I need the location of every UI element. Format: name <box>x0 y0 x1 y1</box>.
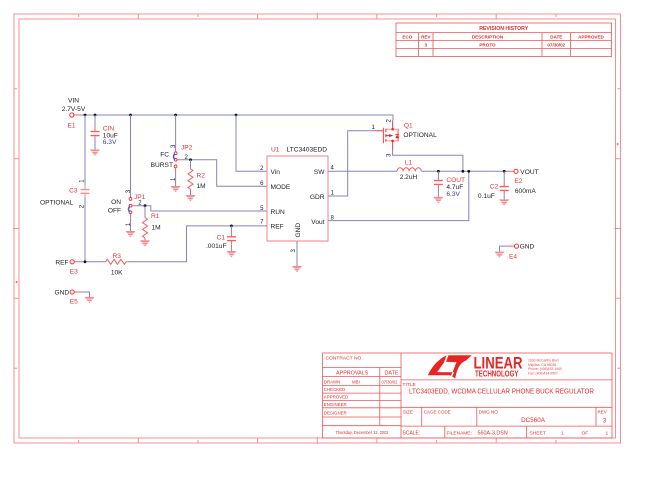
Linear Technology logo <box>428 355 562 379</box>
svg-text:FILENAME:: FILENAME: <box>447 430 472 436</box>
svg-text:DRAWN: DRAWN <box>324 380 340 385</box>
junction REF/C3 <box>84 260 87 263</box>
svg-text:TITLE: TITLE <box>403 382 417 388</box>
svg-text:REVISION HISTORY: REVISION HISTORY <box>479 26 529 32</box>
ground JP1 <box>126 231 136 237</box>
svg-text:DATE: DATE <box>550 34 562 39</box>
junction JP1/R1 <box>144 204 147 207</box>
svg-text:1M: 1M <box>152 224 161 231</box>
junction REF/C1 <box>230 225 233 228</box>
wire C3 to REF line <box>84 198 86 262</box>
svg-text:MODE: MODE <box>271 184 291 191</box>
svg-text:REV: REV <box>421 34 431 39</box>
ground E4 <box>495 252 505 258</box>
svg-text:Vin: Vin <box>271 169 281 176</box>
wire VIN to U1 Vin pin <box>236 115 267 171</box>
svg-text:R2: R2 <box>197 173 206 180</box>
svg-text:LTC3403EDD, WCDMA CELLULAR PHO: LTC3403EDD, WCDMA CELLULAR PHONE BUCK RE… <box>409 389 594 396</box>
svg-text:PROTO: PROTO <box>479 42 496 47</box>
ground C1 <box>226 251 236 257</box>
svg-text:3: 3 <box>425 42 428 47</box>
terminal E2 VOUT <box>514 169 518 173</box>
junction SW/Vout feedback <box>467 170 470 173</box>
svg-text:C3: C3 <box>69 187 78 194</box>
ground CIN <box>90 150 100 156</box>
wire JP2 branch from VIN <box>175 115 177 150</box>
wire Vout feedback <box>328 171 469 220</box>
capacitor C1 <box>227 226 236 251</box>
svg-text:CHECKED: CHECKED <box>324 387 345 392</box>
svg-text:Fax: (408)434-0507: Fax: (408)434-0507 <box>528 372 558 376</box>
svg-text:2.2uH: 2.2uH <box>400 174 418 181</box>
wire SW line U1 to L1 <box>328 170 397 172</box>
svg-text:DESIGNER: DESIGNER <box>324 410 347 415</box>
svg-text:ENGINEER: ENGINEER <box>324 402 347 407</box>
svg-text:07/30/02: 07/30/02 <box>547 42 565 47</box>
svg-text:6.3V: 6.3V <box>103 139 117 146</box>
svg-text:GND: GND <box>520 244 535 251</box>
capacitor C2 <box>500 171 509 199</box>
svg-text:SW: SW <box>314 169 325 176</box>
svg-text:Q1: Q1 <box>404 122 413 129</box>
svg-text:REF: REF <box>271 224 284 231</box>
svg-text:R1: R1 <box>151 213 160 220</box>
op-amp U1 LTC3403EDD box <box>267 156 328 241</box>
wire JP2 pin2 to MODE <box>181 160 267 187</box>
wire GDR to Q1 gate <box>328 131 375 196</box>
wire C3 branch from VIN <box>84 115 86 186</box>
svg-text:GDR: GDR <box>310 194 325 201</box>
terminal E1 VIN <box>70 113 74 117</box>
svg-text:10K: 10K <box>111 269 123 276</box>
wire U1 GND pin3 <box>296 241 298 266</box>
terminal E5 GND <box>70 290 74 294</box>
svg-text:U1: U1 <box>271 146 280 153</box>
svg-text:OF: OF <box>582 430 589 436</box>
svg-text:07/30/02: 07/30/02 <box>382 380 399 385</box>
svg-text:BURST: BURST <box>151 162 173 169</box>
ground C2 <box>499 199 509 205</box>
wire Q1 source to SW node <box>393 150 463 171</box>
svg-text:MBI: MBI <box>352 380 360 385</box>
svg-text:E4: E4 <box>509 253 517 260</box>
svg-text:.001uF: .001uF <box>206 243 227 250</box>
resistor R3 <box>106 259 128 264</box>
ground U1 pin3 <box>292 266 302 272</box>
ground R2 <box>186 195 196 201</box>
svg-text:RUN: RUN <box>271 209 286 216</box>
svg-text:C2: C2 <box>490 183 499 190</box>
wire REF line E3 to U1 <box>74 261 80 263</box>
svg-text:1: 1 <box>561 430 564 436</box>
junction SW/COUT <box>437 170 440 173</box>
svg-text:3: 3 <box>603 418 607 425</box>
svg-text:6.3V: 6.3V <box>446 191 460 198</box>
ground E5 <box>85 297 95 303</box>
transistor Q1 <box>375 121 400 151</box>
svg-text:L1: L1 <box>405 159 413 166</box>
node VIN bus wire <box>74 114 80 116</box>
wire JP2 pin1 to ground <box>175 173 177 187</box>
terminal E3 REF <box>70 260 74 264</box>
resistor R2 <box>188 160 193 195</box>
svg-text:Phone: (408)432-1900: Phone: (408)432-1900 <box>528 367 562 371</box>
svg-text:CAGE CODE: CAGE CODE <box>424 409 451 414</box>
svg-text:1M: 1M <box>197 183 206 190</box>
svg-text:REF: REF <box>55 259 68 266</box>
resistor R1 <box>143 206 148 241</box>
svg-text:Milpitas, CA 95035: Milpitas, CA 95035 <box>528 363 556 367</box>
svg-text:VIN: VIN <box>68 98 79 105</box>
svg-text:OFF: OFF <box>108 207 121 214</box>
svg-text:600mA: 600mA <box>515 188 536 195</box>
wire CIN to ground <box>94 141 96 150</box>
svg-text:OPTIONAL: OPTIONAL <box>403 132 437 139</box>
ground R1 <box>140 240 150 246</box>
junction VIN/JP1 <box>129 114 132 117</box>
junction VIN/U1 <box>235 114 238 117</box>
svg-text:2.7V-5V: 2.7V-5V <box>62 106 86 113</box>
svg-text:1630 McCarthy Blvd.: 1630 McCarthy Blvd. <box>528 358 560 362</box>
svg-text:APPROVED: APPROVED <box>578 34 604 39</box>
svg-text:SIZE: SIZE <box>403 409 413 414</box>
wire CIN branch <box>94 115 96 127</box>
svg-text:FC: FC <box>160 151 169 158</box>
ground JP2 <box>171 186 181 192</box>
svg-text:E3: E3 <box>70 268 78 275</box>
svg-text:C1: C1 <box>217 234 226 241</box>
svg-text:1: 1 <box>606 430 609 436</box>
ground COUT <box>433 197 443 203</box>
jumper JP2 <box>174 150 182 173</box>
wire GND E4 <box>500 246 509 252</box>
svg-text:VOUT: VOUT <box>520 169 538 176</box>
svg-text:SCALE:: SCALE: <box>403 430 421 436</box>
title block <box>323 353 613 438</box>
svg-text:0.1uF: 0.1uF <box>478 193 495 200</box>
junction JP2/R2 <box>189 158 192 161</box>
svg-text:TECHNOLOGY: TECHNOLOGY <box>475 369 519 378</box>
svg-text:R3: R3 <box>112 253 121 260</box>
svg-text:E5: E5 <box>70 299 78 306</box>
inductor L1 <box>397 168 421 171</box>
jumper JP1 <box>128 196 136 218</box>
junction SW/C2 <box>503 170 506 173</box>
junction VIN/C3 <box>84 114 87 117</box>
svg-text:LTC3403EDD: LTC3403EDD <box>287 146 328 153</box>
svg-text:COUT: COUT <box>446 177 465 184</box>
svg-text:CONTRACT NO.: CONTRACT NO. <box>326 356 363 362</box>
svg-text:DC560A: DC560A <box>521 417 546 424</box>
capacitor COUT <box>434 171 443 197</box>
svg-text:E1: E1 <box>67 123 75 130</box>
svg-text:DWG NO: DWG NO <box>479 409 498 414</box>
svg-text:ECO: ECO <box>402 34 412 39</box>
svg-text:APPROVED: APPROVED <box>324 395 348 400</box>
junction VIN/CIN <box>94 114 97 117</box>
svg-text:REV: REV <box>598 409 607 414</box>
wire JP1 pin1 to ground <box>130 218 132 231</box>
revision history table <box>396 23 612 57</box>
wire SW line L1 to VOUT <box>421 170 508 172</box>
svg-text:DESCRIPTION: DESCRIPTION <box>472 34 504 39</box>
junction SW/Q1 <box>462 170 465 173</box>
svg-text:E2: E2 <box>514 178 522 185</box>
terminal E4 GND <box>514 244 518 248</box>
svg-text:APPROVALS: APPROVALS <box>336 371 369 377</box>
wire JP1 branch from VIN <box>130 115 132 196</box>
svg-text:Thursday, December 12, 2002: Thursday, December 12, 2002 <box>336 430 389 436</box>
svg-text:GND: GND <box>295 223 302 238</box>
svg-text:OPTIONAL: OPTIONAL <box>40 199 74 206</box>
svg-text:SHEET: SHEET <box>530 430 546 436</box>
wire GND E5 <box>74 291 80 293</box>
wire JP1 pin2 to RUN <box>136 206 267 211</box>
svg-text:560A-3.DSN: 560A-3.DSN <box>478 430 508 436</box>
capacitor CIN <box>91 127 100 141</box>
svg-text:JP2: JP2 <box>181 144 193 151</box>
svg-text:GND: GND <box>55 290 70 297</box>
svg-text:Vout: Vout <box>311 219 324 226</box>
svg-text:4.7uF: 4.7uF <box>446 184 463 191</box>
svg-text:ON: ON <box>111 199 121 206</box>
junction VIN/JP2 <box>174 114 177 117</box>
svg-text:DATE: DATE <box>385 371 399 377</box>
capacitor C3 <box>81 186 90 198</box>
